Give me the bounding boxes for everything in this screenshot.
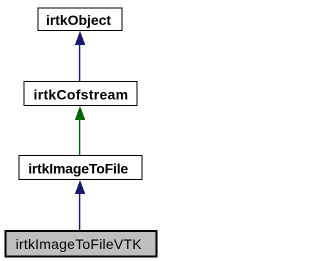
class box irtkObject [38, 8, 122, 31]
inheritance arrow (protected) irtkImageToFile -> irtkCofstream [75, 106, 86, 156]
inheritance diagram for irtkImageToFileVTK [0, 0, 160, 261]
svg-text:irtkImageToFileVTK: irtkImageToFileVTK [16, 236, 143, 252]
inheritance arrow (public) irtkCofstream -> irtkObject [75, 31, 86, 82]
svg-text:irtkCofstream: irtkCofstream [34, 87, 129, 103]
class box irtkImageToFileVTK (current class, grey) [6, 231, 157, 257]
inheritance arrow (public) irtkImageToFileVTK -> irtkImageToFile [75, 180, 86, 231]
svg-text:irtkObject: irtkObject [46, 12, 111, 28]
svg-text:irtkImageToFile: irtkImageToFile [28, 161, 128, 177]
class box irtkCofstream [24, 82, 137, 106]
class box irtkImageToFile [19, 156, 142, 180]
